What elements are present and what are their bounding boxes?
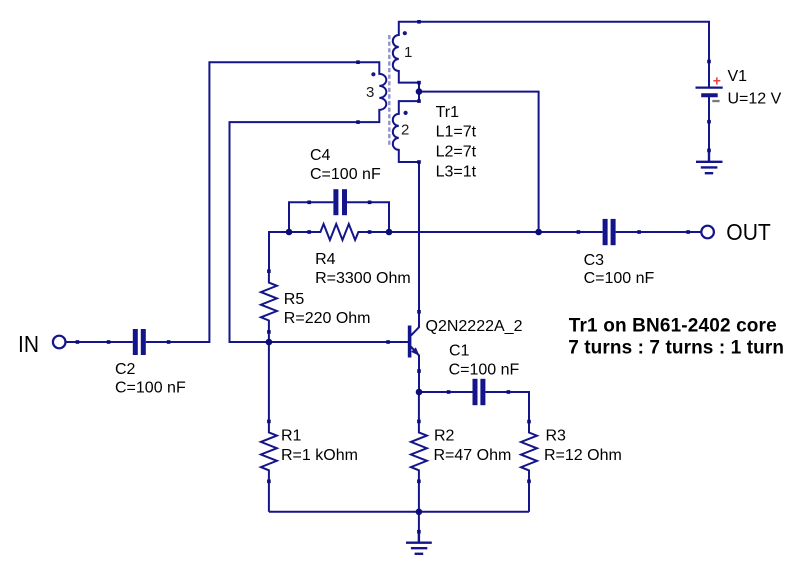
svg-text:L2=7t: L2=7t [436, 143, 477, 160]
Tr1 winding 3 phase dot [371, 72, 375, 76]
svg-text:IN: IN [18, 331, 39, 357]
ground (battery) [696, 150, 723, 173]
Tr1 winding 3 [358, 62, 386, 122]
svg-text:R4: R4 [315, 251, 336, 268]
wire C4 right drop [370, 202, 389, 232]
wire base junction to R1 [268, 342, 270, 421]
wire rail junction to ground [418, 512, 420, 532]
wire top rail to V1 [419, 22, 709, 62]
wire C4 left drop [289, 202, 309, 232]
resistor R4 [309, 224, 369, 240]
wire winding2 bottom to collector [418, 162, 420, 312]
svg-text:7 turns : 7 turns : 1 turn: 7 turns : 7 turns : 1 turn [568, 337, 784, 358]
svg-text:R3: R3 [546, 428, 567, 445]
transformer Tr1 [358, 22, 419, 162]
svg-text:C1: C1 [449, 342, 470, 359]
svg-text:3: 3 [366, 84, 374, 101]
svg-text:Tr1: Tr1 [436, 104, 460, 121]
wire R4 left junction to R5 top [269, 232, 309, 271]
svg-text:C4: C4 [310, 147, 331, 164]
capacitor C2 [109, 329, 169, 355]
svg-text:R=12 Ohm: R=12 Ohm [544, 447, 622, 464]
ground (bottom) [406, 532, 432, 554]
svg-text:R=47 Ohm: R=47 Ohm [434, 447, 512, 464]
svg-text:+: + [713, 72, 721, 88]
svg-text:Q2N2222A_2: Q2N2222A_2 [426, 318, 523, 335]
svg-text:L1=7t: L1=7t [436, 124, 477, 141]
svg-text:OUT: OUT [726, 219, 771, 245]
wire winding1 bottom to junction [418, 83, 420, 102]
wire base row [269, 341, 388, 343]
Tr1 winding 2 [393, 101, 419, 162]
Tr1 winding 1 [393, 22, 419, 83]
wire R5 bottom to base junction [268, 332, 270, 342]
transistor Q1 [388, 312, 419, 371]
Tr1 winding 1 phase dot [403, 31, 407, 35]
wire V1 minus to ground [708, 122, 710, 151]
svg-text:1: 1 [404, 44, 412, 61]
wire C3 to OUT port [639, 231, 701, 233]
wire winding3 bottom to base row (inner L) [230, 122, 359, 342]
V1 minus sign [712, 100, 719, 102]
svg-text:Tr1 on BN61-2402 core: Tr1 on BN61-2402 core [569, 315, 777, 336]
wire IN port to C2 [66, 341, 109, 343]
IN port [53, 336, 66, 349]
resistor R3 [521, 422, 537, 482]
svg-text:R=220 Ohm: R=220 Ohm [284, 310, 371, 327]
svg-text:R5: R5 [284, 291, 305, 308]
svg-text:C=100 nF: C=100 nF [449, 361, 520, 378]
svg-text:R1: R1 [281, 428, 302, 445]
svg-text:C2: C2 [115, 361, 136, 378]
wire R2 bottom to rail [418, 481, 420, 512]
battery V1 [696, 62, 723, 122]
svg-text:C=100 nF: C=100 nF [115, 379, 186, 396]
resistor R2 [411, 421, 427, 481]
node squares [76, 20, 711, 534]
resistor R1 [261, 421, 277, 481]
svg-text:R=3300 Ohm: R=3300 Ohm [315, 270, 411, 287]
wire C1 to R3 top [508, 392, 529, 422]
svg-text:U=12 V: U=12 V [728, 90, 782, 107]
wire emitter junction to R2 [418, 392, 420, 421]
wire R1 bottom to rail [268, 481, 270, 512]
Tr1 winding 2 phase dot [404, 111, 408, 115]
wire bottom ground rail [269, 511, 529, 513]
capacitor C4 [309, 189, 369, 215]
capacitor C3 [578, 219, 639, 245]
svg-text:R2: R2 [434, 428, 455, 445]
svg-text:C3: C3 [584, 252, 605, 269]
Tr1 core (dashed) [388, 35, 390, 147]
wire emitter junction to C1 [419, 391, 449, 393]
wire center tap to OUT junction [419, 92, 539, 232]
svg-text:C=100 nF: C=100 nF [310, 166, 381, 183]
svg-text:L3=1t: L3=1t [436, 163, 477, 180]
wire R3 bottom to rail [528, 481, 530, 512]
wire winding3 top to IN (outer L) [169, 62, 358, 342]
OUT port [701, 226, 714, 239]
svg-text:R=1 kOhm: R=1 kOhm [281, 447, 358, 464]
svg-text:C=100 nF: C=100 nF [584, 270, 655, 287]
wire R4 right port to C3 [370, 231, 579, 233]
svg-text:2: 2 [401, 122, 409, 139]
wire emitter to junction [418, 371, 420, 392]
capacitor C1 [449, 379, 509, 405]
svg-text:V1: V1 [728, 68, 748, 85]
resistor R5 [261, 271, 277, 332]
